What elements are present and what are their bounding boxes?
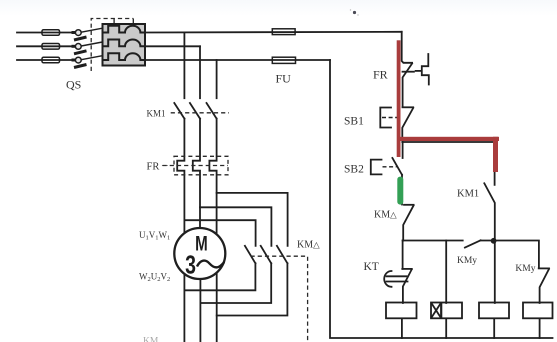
svg-text:KM: KM xyxy=(143,337,159,342)
svg-text:W2U2V2: W2U2V2 xyxy=(139,272,170,284)
svg-text:3: 3 xyxy=(185,250,196,279)
svg-text:KMy: KMy xyxy=(457,256,477,266)
svg-text:–: – xyxy=(161,159,168,171)
svg-text:KT: KT xyxy=(364,261,379,273)
svg-text:QS: QS xyxy=(66,78,81,92)
svg-text:KMy: KMy xyxy=(515,264,535,274)
svg-text:KM△: KM△ xyxy=(297,239,320,250)
svg-text:SB1: SB1 xyxy=(344,116,364,128)
svg-text:KM△: KM△ xyxy=(374,210,397,221)
svg-text:KM1: KM1 xyxy=(457,189,479,200)
svg-text:FR: FR xyxy=(147,162,160,173)
svg-text:KM1: KM1 xyxy=(147,109,166,119)
svg-text:M: M xyxy=(195,231,208,255)
svg-text:FR: FR xyxy=(373,68,388,82)
svg-text:FU: FU xyxy=(276,72,292,86)
svg-text:SB2: SB2 xyxy=(344,164,364,176)
svg-text:U1V1W1: U1V1W1 xyxy=(139,230,170,242)
